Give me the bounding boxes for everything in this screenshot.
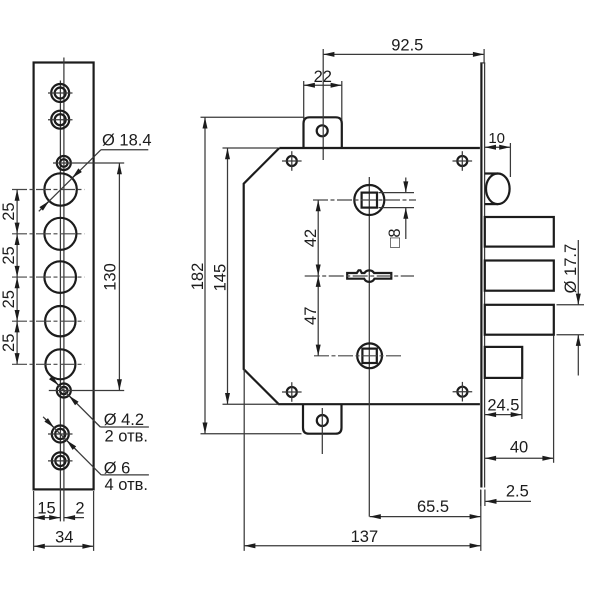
dimension 130 [101,163,119,391]
svg-text:10: 10 [488,130,505,147]
dimension 34 [34,491,94,551]
svg-text:2 отв.: 2 отв. [105,428,148,446]
big hole 3 [12,261,84,293]
dimension 42 [302,200,320,276]
svg-text:Ø 18.4: Ø 18.4 [102,132,152,150]
dimension 92.5 [323,37,484,63]
dimension 22 [304,68,342,120]
dimension chain 25 x4 [0,190,18,365]
dimension 10 [485,130,511,177]
dimension 40 [485,336,554,463]
dimension 15 [34,500,61,518]
svg-text:40: 40 [510,438,528,456]
svg-text:24.5: 24.5 [487,396,519,414]
auxiliary bolt [485,347,522,378]
leader O6 [43,417,149,494]
dimension 137 [244,369,481,551]
svg-text:65.5: 65.5 [417,498,449,516]
svg-text:130: 130 [101,263,119,291]
big hole 5 [12,349,84,379]
svg-text:2.5: 2.5 [506,482,529,500]
square 8 dimension [379,178,415,248]
keyway [305,270,414,282]
screw hole top 2 [48,111,73,129]
cylinder boss [485,174,510,205]
dimension 182 [189,117,305,433]
svg-text:25: 25 [0,246,18,264]
small hole top (130 ref) [53,156,124,170]
dimension 47 [302,276,320,356]
svg-text:Ø 4.2: Ø 4.2 [104,411,144,429]
dimension 24.5 [485,379,522,420]
bottom mounting tab [303,404,342,454]
dimension 2 [64,500,85,518]
bottom follower circle + square [314,343,403,368]
post hole top-left [282,151,302,171]
leader O4.2 [51,377,149,445]
lock case outline [244,148,480,404]
svg-text:Ø 17.7: Ø 17.7 [562,244,580,294]
deadbolt 3 [485,305,554,335]
deadbolt 1 [485,217,554,247]
centerline B (plate axis x=63.9) [63,58,65,522]
post hole top-right [453,151,473,171]
top follower circle + square 8 [313,185,416,215]
post hole bottom-right [453,382,473,402]
svg-text:182: 182 [189,263,207,291]
svg-text:92.5: 92.5 [391,37,423,55]
big hole 4 [12,306,84,336]
dimension O17.7 [557,240,585,376]
centerline A (hole axis x=60.4) [59,81,61,522]
deadbolt 2 [485,261,554,291]
screw hole top 1 [48,84,73,102]
svg-text:145: 145 [211,264,229,292]
svg-text:4 отв.: 4 отв. [105,476,148,494]
dimension 2.5 [481,482,531,506]
hole O4.2 [49,384,124,398]
svg-text:42: 42 [302,229,320,247]
post hole bottom-left [282,382,302,402]
big hole 1 (O18.4) [12,173,84,205]
dimension 145 [211,148,278,404]
leader O18.4 [39,132,152,212]
faceplate edge-on bar [480,63,485,488]
hole O6 lower [48,452,73,469]
faceplate outline (left view) [34,63,94,490]
svg-text:15: 15 [37,500,55,518]
svg-text:34: 34 [55,529,73,547]
top mounting tab [304,117,342,148]
vertical axis through followers [368,177,370,517]
svg-text:□8: □8 [386,228,404,247]
svg-text:25: 25 [0,334,18,352]
svg-text:22: 22 [314,68,332,86]
hole O6 upper [48,426,73,443]
big hole 2 [12,218,84,250]
svg-text:47: 47 [302,307,320,325]
svg-text:137: 137 [351,528,379,546]
dimension 65.5 [370,490,481,551]
tab centerline / 92.5 extension [322,49,324,160]
svg-text:Ø 6: Ø 6 [104,459,131,477]
svg-text:25: 25 [0,290,18,308]
svg-text:2: 2 [75,500,84,518]
svg-text:25: 25 [0,202,18,220]
